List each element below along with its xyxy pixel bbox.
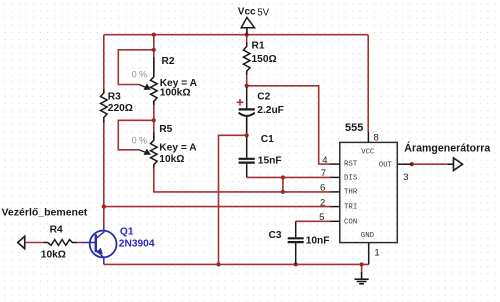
resistor R1 — [243, 43, 250, 75]
svg-text:5V: 5V — [257, 8, 269, 19]
svg-text:1: 1 — [374, 248, 379, 259]
svg-text:VCC: VCC — [361, 148, 375, 156]
svg-text:THR: THR — [344, 189, 358, 197]
svg-text:R1: R1 — [252, 40, 265, 51]
wire C2 to C1 node — [246, 117, 248, 135]
wire TRI (pin2) — [104, 206, 331, 208]
node top R2 — [152, 33, 156, 37]
capacitor C3 — [288, 221, 304, 264]
wire RST path — [247, 86, 331, 164]
svg-text:15nF: 15nF — [258, 156, 282, 167]
svg-text:2.2uF: 2.2uF — [257, 105, 284, 116]
node ground — [360, 262, 364, 266]
wire R4 input — [25, 242, 45, 244]
input port arrow — [18, 236, 25, 248]
svg-text:2N3904: 2N3904 — [119, 238, 155, 249]
node bottom mid — [216, 262, 220, 266]
wire R5 bottom to THR — [154, 169, 331, 192]
node OUT — [410, 162, 414, 166]
IC U1 555 timer box — [340, 142, 398, 242]
svg-text:R5: R5 — [159, 124, 172, 135]
svg-text:0 %: 0 % — [132, 69, 147, 79]
svg-text:100kΩ: 100kΩ — [160, 88, 191, 99]
svg-text:0 %: 0 % — [132, 136, 147, 146]
wire bottom rail — [104, 263, 369, 265]
svg-text:R2: R2 — [162, 56, 175, 67]
svg-text:6: 6 — [320, 183, 325, 194]
svg-text:C1: C1 — [261, 134, 274, 145]
wire R1 bottom to C2 node — [246, 73, 248, 86]
wire R1 top lead — [246, 35, 248, 44]
svg-text:C2: C2 — [257, 92, 270, 103]
svg-text:5: 5 — [319, 212, 324, 223]
svg-text:CON: CON — [344, 219, 357, 227]
svg-text:Key = A: Key = A — [159, 143, 197, 154]
svg-text:10kΩ: 10kΩ — [41, 250, 66, 261]
capacitor C2 (polarized) — [239, 87, 255, 133]
wire C1 node left and down — [219, 135, 247, 264]
svg-text:OUT: OUT — [379, 161, 393, 169]
wire R5 loop — [118, 120, 154, 150]
svg-text:R3: R3 — [108, 92, 121, 103]
node R2/R5 — [152, 118, 156, 122]
wire VCC pin8 drop — [367, 35, 369, 132]
R5 wiper arrow — [139, 150, 150, 154]
svg-text:R4: R4 — [50, 225, 63, 236]
svg-text:DIS: DIS — [344, 174, 358, 182]
wire DIS-THR link — [282, 177, 284, 192]
wire R4 to Q1 base — [77, 242, 84, 244]
svg-text:C3: C3 — [269, 230, 282, 241]
svg-text:4: 4 — [322, 155, 327, 166]
node DIS — [281, 175, 285, 179]
output port arrow — [449, 158, 463, 171]
wire R2 column top — [153, 35, 155, 76]
node C3 bottom — [294, 262, 298, 266]
svg-text:TRI: TRI — [344, 204, 357, 212]
node THR — [281, 190, 285, 194]
node R2 wiper loop — [152, 48, 156, 52]
wire R2 loop — [118, 50, 154, 85]
potentiometer R2 — [151, 57, 158, 105]
resistor R3 — [101, 90, 108, 123]
svg-text:150Ω: 150Ω — [252, 54, 277, 65]
svg-text:10kΩ: 10kΩ — [159, 154, 184, 165]
svg-text:2: 2 — [320, 197, 325, 208]
potentiometer R5 — [151, 132, 158, 169]
svg-text:7: 7 — [321, 168, 326, 179]
svg-text:220Ω: 220Ω — [108, 103, 133, 114]
C2 plus sign — [237, 99, 244, 106]
node TRI — [102, 205, 106, 209]
svg-text:555: 555 — [345, 122, 363, 134]
svg-text:Áramgenerátorra: Áramgenerátorra — [404, 142, 490, 155]
resistor R4 — [44, 240, 77, 246]
wire ground stem — [361, 264, 363, 272]
svg-text:Q1: Q1 — [120, 227, 134, 238]
svg-text:RST: RST — [344, 160, 358, 168]
wire DIS (pin7) — [247, 176, 331, 178]
R2 wiper arrow — [139, 85, 150, 90]
wire CON (pin5) — [296, 220, 331, 222]
wire R2 to R5 — [153, 101, 155, 140]
node C2 top — [245, 84, 249, 88]
svg-text:3: 3 — [403, 172, 408, 183]
ground — [355, 272, 369, 284]
wire left column (R3 branch) — [103, 35, 105, 93]
wire OUT (pin3) — [412, 163, 449, 165]
svg-text:Vcc: Vcc — [238, 7, 256, 18]
wire Q1 emitter drop — [103, 263, 105, 265]
Vcc power symbol — [241, 17, 254, 34]
node C1 top — [245, 133, 249, 137]
svg-text:Vezérlő_bemenet: Vezérlő_bemenet — [2, 207, 88, 219]
svg-text:10nF: 10nF — [306, 236, 330, 247]
transistor Q1 — [83, 227, 117, 264]
svg-text:GND: GND — [361, 232, 375, 240]
wire R3 bottom to Q1 collector — [103, 120, 105, 226]
node top Vcc — [245, 33, 249, 37]
wire top rail — [104, 34, 368, 36]
svg-text:8: 8 — [374, 132, 379, 143]
U1 pin stubs — [331, 132, 412, 264]
capacitor C1 — [239, 137, 255, 178]
